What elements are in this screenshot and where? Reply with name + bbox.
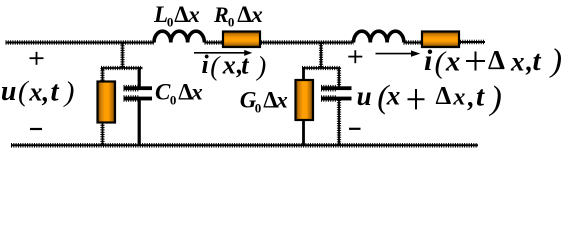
svg-text:R: R <box>213 2 229 27</box>
inductor L0dx <box>154 31 204 42</box>
plus sign left (u polarity) <box>30 52 44 65</box>
svg-text:0: 0 <box>167 15 174 30</box>
svg-text:i: i <box>424 44 433 77</box>
svg-text:t: t <box>241 51 249 80</box>
current arrow i(x+dx,t) <box>376 50 421 56</box>
plus sign right (u polarity) <box>348 50 362 63</box>
label i(x,t) <box>202 50 267 81</box>
wire from left shunt resistor to bottom wire <box>100 123 104 146</box>
svg-text:Δ: Δ <box>488 45 505 75</box>
wire from T-bar to capacitor top (right shunt) <box>337 68 341 87</box>
wire T-bar left shunt <box>101 66 143 70</box>
resistor R0dx (series, orange) <box>223 32 260 48</box>
wire from T-bar to resistor G (left shunt) <box>100 68 104 82</box>
svg-text:): ) <box>255 51 266 81</box>
svg-text:t: t <box>533 45 542 77</box>
svg-text:x: x <box>250 2 263 27</box>
svg-text:x: x <box>452 85 465 111</box>
svg-text:t: t <box>476 81 485 113</box>
svg-text:0: 0 <box>255 100 261 115</box>
svg-text:(: ( <box>18 76 30 108</box>
top wire segment left (node x) <box>6 40 155 45</box>
bottom wire (return conductor) <box>11 143 478 148</box>
label u(x,t) <box>1 76 74 109</box>
resistor R0dx second section (series, orange) <box>422 32 459 48</box>
svg-text:Δ: Δ <box>237 2 252 27</box>
minus sign left (u polarity) <box>30 128 42 130</box>
svg-text:0: 0 <box>228 14 235 29</box>
wire from T-bar to resistor G0 (right shunt) <box>302 67 305 81</box>
label C0dx <box>155 80 203 108</box>
wire from T-bar to capacitor C0 top (left shunt) <box>138 67 141 87</box>
svg-text:x: x <box>275 88 288 113</box>
svg-text:0: 0 <box>170 92 177 107</box>
wire T-bar right shunt <box>302 66 341 70</box>
svg-text:t: t <box>51 76 60 108</box>
top wire segment between R0 and second inductor <box>261 40 354 45</box>
top wire segment between inductor L0 and resistor R0 <box>205 40 223 45</box>
svg-text:u: u <box>1 76 17 107</box>
svg-text:,: , <box>467 82 475 112</box>
label G0dx <box>240 88 288 116</box>
svg-text:u: u <box>357 81 372 111</box>
svg-text:(: ( <box>435 45 447 80</box>
svg-text:): ) <box>63 76 75 108</box>
minus sign right (u polarity) <box>349 128 361 130</box>
svg-text:): ) <box>489 80 502 117</box>
svg-text:x: x <box>190 80 203 105</box>
svg-text:Δ: Δ <box>174 2 189 27</box>
svg-text:x: x <box>28 78 42 107</box>
capacitor C0dx (left shunt) <box>124 86 153 100</box>
svg-text:(: ( <box>210 51 221 81</box>
svg-text:): ) <box>549 43 562 79</box>
label L0dx <box>153 2 200 30</box>
current arrow i(x,t) <box>194 50 252 56</box>
label R0dx <box>213 2 263 30</box>
shunt resistor G0dx (orange, vertical) <box>296 80 314 120</box>
svg-text:i: i <box>202 50 210 79</box>
top wire segment between second inductor and second resistor <box>404 40 422 45</box>
node junction drop left shunt <box>120 43 124 69</box>
label i(x+dx,t) <box>424 43 562 80</box>
wire from G0 resistor to bottom wire <box>302 120 305 146</box>
svg-text:,: , <box>42 77 50 107</box>
svg-text:Δ: Δ <box>436 83 452 110</box>
svg-text:x: x <box>187 2 200 27</box>
svg-text:x: x <box>386 81 401 111</box>
label u(x+dx,t) <box>357 80 502 117</box>
inductor L0dx second section <box>354 31 404 42</box>
capacitor right shunt <box>321 86 352 100</box>
shunt resistor left (orange, vertical) <box>98 82 116 123</box>
top wire segment right end (node x+dx) <box>460 40 485 45</box>
node junction drop right shunt <box>319 43 323 69</box>
svg-text:x: x <box>222 51 236 80</box>
svg-text:x: x <box>510 47 525 77</box>
wire from capacitor C0 to bottom wire <box>138 100 141 146</box>
wire from right capacitor to bottom wire <box>337 100 341 145</box>
svg-text:L: L <box>153 2 168 27</box>
svg-text:C: C <box>155 80 171 105</box>
svg-text:x: x <box>445 46 461 78</box>
